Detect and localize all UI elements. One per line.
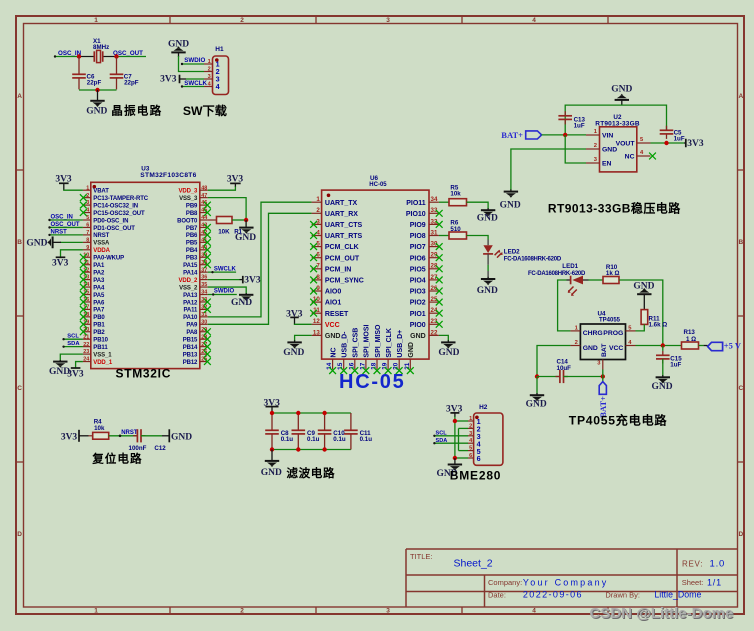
- wire pin5 stub: [459, 450, 469, 452]
- svg-text:0.1u: 0.1u: [360, 436, 373, 443]
- LED LED2 FC-DA1608HRK-620D: [483, 245, 562, 262]
- U3 left pins 1-24: [83, 185, 149, 366]
- svg-text:Drawn By:: Drawn By:: [605, 591, 640, 600]
- svg-text:SPI_MOSI: SPI_MOSI: [364, 324, 371, 357]
- svg-text:1/1: 1/1: [707, 578, 722, 588]
- svg-text:PA0-WKUP: PA0-WKUP: [93, 256, 124, 262]
- svg-text:2022-09-06: 2022-09-06: [523, 590, 583, 600]
- svg-text:BAT: BAT: [601, 343, 608, 357]
- wire PIO8 to R6: [439, 235, 449, 237]
- wire LED1 to R10: [589, 279, 604, 281]
- ground at U3 VSSA pin8: [26, 236, 83, 248]
- junction filter top rail dots: [270, 411, 327, 415]
- svg-text:GND: GND: [408, 342, 415, 358]
- LED LED1 FC-DA1608HRK-620D: [528, 263, 589, 296]
- wire C12 to GND port: [141, 435, 169, 437]
- svg-text:PA4: PA4: [93, 285, 105, 291]
- wire SWCLK to H1 pin4: [181, 85, 204, 87]
- svg-text:UART_TX: UART_TX: [325, 200, 358, 207]
- ground at U3 VSS_1 pin23: [49, 354, 83, 377]
- svg-text:FC-DA1608HRK-620D: FC-DA1608HRK-620D: [528, 271, 586, 277]
- svg-text:GND: GND: [261, 468, 282, 478]
- svg-text:3: 3: [469, 431, 472, 437]
- svg-text:PA1: PA1: [93, 263, 105, 269]
- resistor R4 10k: [93, 418, 109, 439]
- svg-text:1k Ω: 1k Ω: [606, 270, 620, 277]
- svg-text:3V3: 3V3: [160, 74, 177, 84]
- svg-text:VSS_1: VSS_1: [93, 352, 112, 358]
- svg-text:3V3: 3V3: [52, 258, 69, 268]
- wire OSC_OUT to pin6: [48, 226, 83, 228]
- wire BME280 3V3 rail: [454, 417, 456, 459]
- svg-text:1: 1: [316, 196, 320, 203]
- svg-text:PA13: PA13: [183, 293, 198, 299]
- U3 unused pin X marks: [80, 194, 211, 365]
- wire BAT+ to VIN: [542, 134, 586, 136]
- wire 3V3 to H1 pin3: [186, 78, 204, 80]
- svg-text:CHRG: CHRG: [583, 330, 603, 337]
- X mark NC pin4: [649, 153, 656, 160]
- svg-text:TP4055充电电路: TP4055充电电路: [569, 413, 668, 428]
- op-amp U3 STM32F103C8T6 body: [91, 165, 200, 368]
- power port 3V3 at reset: [61, 430, 89, 443]
- U6 bottom pins 14-21: [326, 324, 415, 370]
- svg-text:34: 34: [431, 196, 438, 203]
- svg-text:SWDIO: SWDIO: [214, 289, 235, 295]
- ground crystal: [86, 90, 107, 117]
- svg-text:6: 6: [86, 223, 89, 229]
- wire LED2 to ground: [487, 254, 489, 265]
- svg-text:7: 7: [86, 230, 89, 236]
- svg-text:H2: H2: [479, 404, 488, 411]
- header H1: [204, 46, 229, 94]
- svg-text:SPI_MISO: SPI_MISO: [375, 324, 382, 358]
- svg-text:PA7: PA7: [93, 308, 105, 314]
- svg-text:U6: U6: [370, 175, 379, 182]
- svg-text:VDD_1: VDD_1: [93, 360, 113, 366]
- svg-text:VCC: VCC: [325, 322, 340, 329]
- svg-text:SCL: SCL: [67, 334, 79, 340]
- ground at U6 pin22: [438, 340, 459, 358]
- svg-text:UART_RX: UART_RX: [325, 211, 358, 218]
- svg-text:PIO11: PIO11: [406, 200, 426, 207]
- ground at U6 pin13: [283, 340, 304, 358]
- wire BOOT0 to R1: [208, 219, 217, 221]
- svg-text:C: C: [17, 385, 22, 392]
- ground at RT9013 top: [611, 85, 632, 105]
- U6 left pins 1-13: [312, 196, 364, 340]
- svg-text:FC-DA1608HRK-620D: FC-DA1608HRK-620D: [504, 257, 562, 263]
- svg-text:PB12: PB12: [183, 360, 198, 366]
- port BAT+ at TP4055: [598, 382, 608, 418]
- crystal X1 pins: [79, 56, 94, 58]
- svg-text:35: 35: [201, 282, 207, 288]
- svg-text:2: 2: [240, 17, 244, 24]
- ground at filter: [261, 450, 282, 478]
- port +5V: [708, 341, 742, 351]
- wire 3V3 to VCC pin12: [295, 323, 312, 326]
- junction VCC node: [661, 343, 665, 347]
- wire VSS_3 to ground node: [208, 198, 246, 220]
- svg-text:Little_Dome: Little_Dome: [654, 590, 701, 600]
- junction crystal left: [77, 54, 81, 58]
- svg-text:NRST: NRST: [121, 430, 138, 436]
- svg-text:14: 14: [326, 362, 333, 370]
- svg-text:D: D: [17, 531, 22, 538]
- svg-text:A: A: [738, 93, 743, 100]
- svg-text:2: 2: [469, 423, 472, 429]
- wire R11 to PROG: [636, 324, 645, 331]
- capacitor C6: [72, 73, 101, 86]
- svg-text:6: 6: [477, 454, 481, 463]
- svg-text:3: 3: [386, 608, 390, 615]
- svg-text:R13: R13: [684, 329, 696, 336]
- capacitor C11 0.1u: [344, 413, 372, 450]
- svg-text:13: 13: [313, 329, 320, 336]
- svg-text:PIO4: PIO4: [410, 278, 426, 285]
- svg-text:8MHz: 8MHz: [93, 44, 109, 51]
- svg-text:PB4: PB4: [186, 248, 198, 254]
- svg-text:17: 17: [359, 362, 366, 370]
- svg-text:PB2: PB2: [93, 330, 105, 336]
- svg-text:PA12: PA12: [183, 300, 198, 306]
- svg-text:PIO3: PIO3: [410, 289, 426, 296]
- svg-text:GND: GND: [583, 345, 598, 352]
- junction ground rail: [95, 88, 99, 92]
- svg-text:5: 5: [469, 446, 472, 452]
- svg-text:复位电路: 复位电路: [91, 452, 142, 466]
- svg-text:滤波电路: 滤波电路: [286, 466, 335, 480]
- wire C7 top leg: [116, 57, 118, 74]
- wire GND to H1 pin2: [179, 56, 205, 72]
- svg-text:VCC: VCC: [609, 345, 623, 352]
- svg-text:VDD_2: VDD_2: [178, 278, 198, 284]
- svg-text:PA10: PA10: [183, 315, 198, 321]
- svg-text:PD0-OSC_IN: PD0-OSC_IN: [93, 218, 128, 224]
- svg-text:RT9013-33GB: RT9013-33GB: [595, 120, 640, 127]
- svg-text:HC-05: HC-05: [369, 182, 387, 188]
- svg-text:VDD_3: VDD_3: [178, 189, 198, 195]
- power port 3V3 at U3 VDDA pin9: [52, 250, 83, 268]
- svg-text:1uF: 1uF: [670, 362, 681, 369]
- svg-text:PB9: PB9: [186, 203, 198, 209]
- ground at U3 VSS_2 pin35: [231, 293, 253, 308]
- svg-text:3: 3: [208, 74, 211, 80]
- svg-text:PB1: PB1: [93, 323, 105, 329]
- svg-text:TP4055: TP4055: [599, 318, 621, 324]
- svg-text:PIO2: PIO2: [410, 300, 426, 307]
- svg-text:PB10: PB10: [93, 338, 108, 344]
- svg-text:30: 30: [201, 319, 207, 325]
- svg-text:10k: 10k: [94, 425, 105, 432]
- wire SWDIO at pin34: [208, 293, 237, 295]
- capacitor C8 0.1u: [265, 413, 293, 450]
- svg-text:PA11: PA11: [183, 308, 198, 314]
- wire C6 top leg: [78, 57, 80, 74]
- svg-text:Date:: Date:: [488, 591, 506, 600]
- svg-text:PA3: PA3: [93, 278, 105, 284]
- svg-text:UART_CTS: UART_CTS: [325, 222, 363, 229]
- svg-text:0.1u: 0.1u: [333, 436, 346, 443]
- resistor R11 1.6kΩ: [641, 310, 667, 329]
- svg-text:16: 16: [348, 362, 355, 370]
- junction BAT node: [601, 374, 605, 378]
- svg-text:4: 4: [532, 608, 536, 615]
- svg-text:18: 18: [371, 362, 378, 370]
- wire GND pin22 right: [439, 335, 448, 341]
- svg-text:2: 2: [316, 207, 320, 214]
- svg-text:2: 2: [86, 193, 89, 199]
- svg-text:VOUT: VOUT: [616, 141, 636, 148]
- svg-text:1.0: 1.0: [710, 559, 726, 570]
- svg-text:PA8: PA8: [186, 330, 198, 336]
- svg-text:PC13-TAMPER-RTC: PC13-TAMPER-RTC: [93, 196, 148, 202]
- svg-text:GND: GND: [86, 107, 107, 117]
- svg-text:OSC_OUT: OSC_OUT: [51, 222, 80, 228]
- svg-text:PB13: PB13: [183, 352, 198, 358]
- wire pin1 stub: [455, 420, 468, 422]
- U3 right pins 25-48: [177, 185, 208, 366]
- wire SWDIO to H1 pin1: [181, 63, 204, 65]
- wire pin2 stub: [459, 427, 469, 429]
- svg-text:PROG: PROG: [603, 330, 623, 337]
- wire PA9 to HC-05 UART_RX: [208, 213, 312, 324]
- svg-text:Your Company: Your Company: [523, 577, 609, 587]
- svg-text:B: B: [17, 239, 22, 246]
- svg-text:RESET: RESET: [325, 311, 349, 318]
- wire R10 to VCC node: [619, 280, 663, 346]
- svg-text:9: 9: [86, 245, 89, 251]
- junction crystal right: [114, 54, 118, 58]
- ground at C15: [651, 375, 672, 392]
- power port 3V3 at BME280: [446, 404, 463, 417]
- svg-text:100nF: 100nF: [129, 445, 147, 452]
- wire VCC to R13: [636, 345, 682, 347]
- wire VOUT to 3V3: [651, 142, 685, 144]
- svg-text:PB11: PB11: [93, 345, 108, 351]
- ground at R5: [477, 208, 498, 223]
- wire C14 left: [537, 376, 560, 378]
- svg-text:1: 1: [469, 416, 472, 422]
- svg-text:6: 6: [469, 453, 472, 459]
- svg-text:BME280: BME280: [450, 469, 502, 483]
- wire U4 GND pin2 to C14 node: [537, 346, 570, 377]
- wire 3V3 to R4: [89, 435, 93, 437]
- wire OSC_IN net: [55, 56, 79, 58]
- svg-text:NRST: NRST: [93, 233, 109, 239]
- svg-text:4: 4: [86, 208, 89, 214]
- svg-text:3V3: 3V3: [687, 139, 704, 149]
- svg-text:0.1u: 0.1u: [307, 436, 320, 443]
- svg-text:15: 15: [337, 362, 344, 370]
- wire EN tie: [565, 135, 586, 163]
- svg-text:D: D: [738, 531, 743, 538]
- svg-text:USB_D+: USB_D+: [397, 330, 404, 358]
- svg-text:晶振电路: 晶振电路: [111, 104, 162, 118]
- svg-text:22pF: 22pF: [87, 80, 102, 87]
- svg-text:SW下载: SW下载: [183, 103, 227, 118]
- svg-text:4: 4: [532, 17, 536, 24]
- capacitor C10 0.1u: [318, 413, 346, 450]
- svg-text:1 Ω: 1 Ω: [686, 336, 696, 343]
- U6 right pins 22-34: [406, 196, 439, 340]
- svg-text:REV:: REV:: [682, 560, 703, 569]
- svg-text:GND: GND: [26, 238, 47, 248]
- junction VOUT C5: [664, 141, 668, 145]
- svg-text:HC-05: HC-05: [339, 371, 406, 393]
- svg-text:AIO1: AIO1: [325, 300, 341, 307]
- svg-text:34: 34: [201, 290, 207, 296]
- capacitor C15 1uF: [656, 346, 682, 376]
- svg-text:GND: GND: [325, 333, 341, 340]
- svg-text:LED1: LED1: [562, 263, 578, 270]
- svg-text:H1: H1: [215, 46, 224, 53]
- svg-text:21: 21: [404, 362, 411, 370]
- svg-text:PB5: PB5: [186, 241, 198, 247]
- svg-text:AIO0: AIO0: [325, 289, 341, 296]
- svg-text:UART_RTS: UART_RTS: [325, 233, 363, 240]
- wire BME280 gnd rail2: [458, 428, 460, 450]
- resistor R1 10K: [217, 217, 243, 236]
- capacitor C5 1uF: [660, 126, 685, 143]
- wire R13 to +5V: [699, 345, 708, 347]
- capacitor C7: [110, 73, 139, 86]
- wire CHRG to LED1: [558, 280, 571, 331]
- svg-text:3V3: 3V3: [244, 276, 261, 286]
- svg-text:2: 2: [594, 143, 597, 149]
- svg-text:C12: C12: [154, 445, 166, 452]
- power port 3V3 at U3 VDD_1 pin24: [67, 362, 84, 380]
- svg-text:20: 20: [393, 362, 400, 370]
- svg-text:VSS_3: VSS_3: [179, 196, 198, 202]
- svg-text:+5 V: +5 V: [724, 341, 742, 351]
- svg-text:NC: NC: [330, 347, 337, 357]
- power port 3V3 at filter: [264, 398, 281, 413]
- svg-text:STM32IC: STM32IC: [116, 367, 172, 381]
- svg-text:GND: GND: [526, 400, 547, 410]
- capacitor C9 0.1u: [292, 413, 320, 450]
- svg-text:VDDA: VDDA: [93, 248, 110, 254]
- svg-text:19: 19: [382, 362, 389, 370]
- svg-text:SDA: SDA: [67, 341, 80, 347]
- svg-text:PIO8: PIO8: [410, 233, 426, 240]
- wire R5 to ground: [467, 202, 489, 209]
- svg-text:OSC_IN: OSC_IN: [51, 214, 73, 220]
- svg-text:PB14: PB14: [183, 345, 198, 351]
- svg-text:VBAT: VBAT: [93, 189, 109, 195]
- svg-text:12: 12: [313, 318, 320, 325]
- svg-text:PCM_IN: PCM_IN: [325, 266, 351, 273]
- svg-text:PIO0: PIO0: [410, 322, 426, 329]
- wire SDA to pin22: [62, 345, 83, 347]
- svg-text:23: 23: [83, 349, 89, 355]
- svg-text:PCM_SYNC: PCM_SYNC: [325, 278, 364, 285]
- svg-text:PA15: PA15: [183, 263, 198, 269]
- svg-text:PB7: PB7: [186, 226, 198, 232]
- svg-text:NC: NC: [625, 154, 635, 161]
- svg-text:SWCLK: SWCLK: [184, 80, 207, 87]
- svg-text:GND: GND: [477, 286, 498, 296]
- wire SDA to pin4: [433, 442, 468, 444]
- svg-text:4: 4: [216, 82, 220, 91]
- regulator U2 RT9013-33GB: [586, 114, 651, 172]
- ground above R11: [633, 282, 654, 310]
- svg-text:1uF: 1uF: [574, 123, 585, 130]
- svg-text:31: 31: [431, 229, 438, 236]
- svg-text:PA5: PA5: [93, 293, 105, 299]
- ground at BME280: [436, 458, 462, 479]
- svg-text:3: 3: [86, 200, 89, 206]
- power port 3V3 at U3 VDD_2 pin36: [208, 276, 261, 286]
- power port 3V3 to H1 pin3: [160, 74, 186, 84]
- junction BAT+ VIN EN: [563, 133, 567, 137]
- svg-text:PCM_OUT: PCM_OUT: [325, 255, 360, 262]
- svg-text:3V3: 3V3: [67, 370, 84, 380]
- svg-text:48: 48: [201, 185, 207, 191]
- svg-text:SWCLK: SWCLK: [214, 266, 237, 272]
- wire R6 to LED2: [467, 236, 489, 240]
- svg-text:PB8: PB8: [186, 211, 198, 217]
- wire OSC_IN to pin5: [48, 219, 83, 221]
- wire SCL to pin3: [433, 435, 468, 437]
- svg-text:BAT+: BAT+: [501, 130, 523, 140]
- svg-text:10K: 10K: [218, 229, 230, 236]
- svg-text:PB6: PB6: [186, 233, 198, 239]
- svg-text:NRST: NRST: [51, 229, 68, 235]
- svg-text:GND: GND: [500, 200, 521, 210]
- svg-text:PA2: PA2: [93, 270, 105, 276]
- svg-text:GND: GND: [171, 433, 192, 443]
- svg-text:PD1-OSC_OUT: PD1-OSC_OUT: [93, 226, 135, 232]
- svg-text:PIO5: PIO5: [410, 266, 426, 273]
- svg-text:PC15-OSC32_OUT: PC15-OSC32_OUT: [93, 211, 145, 217]
- wire NRST to pin7: [48, 234, 83, 236]
- ground at U2: [500, 189, 521, 210]
- wire VDD_3 to 3V3: [208, 187, 236, 191]
- svg-text:10uF: 10uF: [557, 365, 572, 372]
- svg-text:LED2: LED2: [504, 248, 520, 255]
- svg-text:Sheet_2: Sheet_2: [454, 558, 493, 570]
- svg-text:5: 5: [86, 215, 89, 221]
- svg-text:PB3: PB3: [186, 256, 198, 262]
- wire PA10 to HC-05 UART_TX: [208, 202, 312, 317]
- ground at LED2: [477, 277, 498, 296]
- svg-text:SPI_CSB: SPI_CSB: [353, 328, 360, 358]
- svg-text:2: 2: [208, 66, 211, 72]
- svg-text:VSS_2: VSS_2: [179, 285, 198, 291]
- wire PIO11 to R5: [439, 201, 449, 203]
- svg-text:PB0: PB0: [93, 315, 105, 321]
- crystal X1: [93, 38, 109, 63]
- capacitor C14 10uF: [556, 358, 572, 383]
- svg-text:PA9: PA9: [186, 323, 198, 329]
- svg-text:GND: GND: [410, 333, 426, 340]
- wire OSC_OUT net: [117, 56, 147, 58]
- junction filter bottom rail dots: [270, 447, 327, 451]
- junction pin1: [453, 419, 457, 423]
- resistor R10 1kΩ: [603, 264, 620, 284]
- capacitor C13 1uF: [558, 111, 585, 130]
- svg-text:TITLE:: TITLE:: [410, 552, 433, 561]
- svg-text:Sheet:: Sheet:: [682, 578, 704, 587]
- junction pin6: [453, 456, 457, 460]
- svg-text:GND: GND: [438, 348, 459, 358]
- svg-text:SDA: SDA: [436, 438, 448, 444]
- svg-text:PA14: PA14: [183, 270, 198, 276]
- charger U4 TP4055: [570, 311, 635, 370]
- svg-text:24: 24: [83, 357, 89, 363]
- wire pin6 stub: [455, 457, 468, 459]
